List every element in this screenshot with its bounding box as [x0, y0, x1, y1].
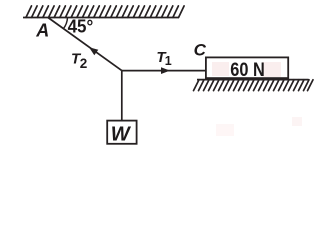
- svg-text:C: C: [194, 41, 207, 60]
- svg-text:1: 1: [165, 54, 172, 68]
- svg-text:W: W: [111, 124, 132, 146]
- svg-text:60 N: 60 N: [230, 59, 264, 81]
- svg-text:45°: 45°: [68, 15, 94, 36]
- svg-text:A: A: [35, 21, 49, 41]
- svg-text:2: 2: [80, 56, 88, 71]
